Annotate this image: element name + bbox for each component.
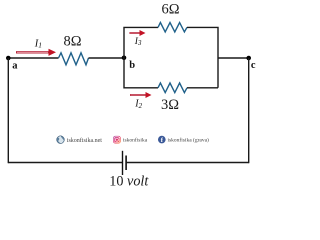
resistor R2 6ohm zigzag [158,23,187,32]
svg-text:I1: I1 [34,38,42,49]
wire 8ohm right lead to node b [89,57,125,59]
wire b down to bottom branch [124,58,158,88]
current arrow I1 [16,49,56,56]
wire right loop middle to node c [218,57,249,59]
resistor R1 8ohm zigzag [59,53,89,65]
watermark globe icon [57,135,65,143]
svg-text:3Ω: 3Ω [161,97,179,113]
resistor R3 3ohm zigzag [158,83,187,93]
wire 3ohm to right loop corner [187,87,218,89]
svg-text:b: b [129,60,135,71]
wire battery to bottom right corner [126,162,249,164]
svg-text:8Ω: 8Ω [63,34,81,50]
svg-text:iskonfisika (grava): iskonfisika (grava) [168,137,210,144]
watermark facebook icon [158,136,166,144]
svg-text:a: a [12,61,18,72]
wire a to 8ohm left lead [8,57,58,59]
svg-text:I2: I2 [134,99,142,110]
current arrow I2 [130,92,152,98]
svg-text:c: c [251,60,256,71]
node b [122,56,127,61]
svg-text:6Ω: 6Ω [161,2,179,18]
wire 6ohm to right loop corner [187,27,218,87]
wire bottom left to battery [8,162,122,164]
battery short plate [125,156,127,171]
svg-text:iskonfisika: iskonfisika [123,137,148,144]
current arrow I3 [130,30,146,36]
wire left vertical from a down [7,58,9,163]
svg-text:10 volt: 10 volt [109,174,149,190]
wire right vertical up to node c [248,58,250,163]
node a [6,56,11,61]
watermark instagram icon [113,136,121,144]
battery long plate [122,151,124,175]
svg-text:I3: I3 [134,37,142,47]
node c [246,56,251,61]
wire b up to top branch [124,27,158,58]
svg-text:iskonfisika.net: iskonfisika.net [67,137,102,144]
